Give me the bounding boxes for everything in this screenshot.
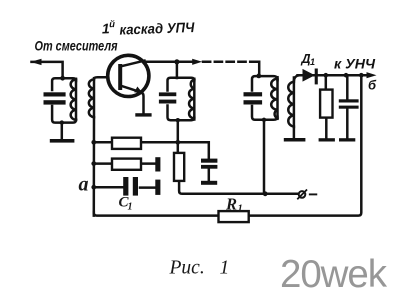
- svg-text:1: 1: [220, 258, 230, 279]
- svg-text:R: R: [225, 195, 237, 214]
- svg-text:От смесителя: От смесителя: [35, 38, 118, 54]
- svg-text:й: й: [109, 19, 115, 30]
- svg-text:20wek: 20wek: [280, 253, 388, 295]
- svg-text:1: 1: [128, 202, 133, 213]
- svg-text:1: 1: [310, 57, 315, 67]
- svg-text:Рис.: Рис.: [169, 258, 205, 279]
- svg-text:каскад УПЧ: каскад УПЧ: [119, 19, 196, 38]
- svg-text:1: 1: [238, 204, 243, 215]
- svg-text:a: a: [79, 174, 89, 196]
- svg-text:к УНЧ: к УНЧ: [334, 55, 376, 71]
- svg-text:б: б: [368, 78, 377, 93]
